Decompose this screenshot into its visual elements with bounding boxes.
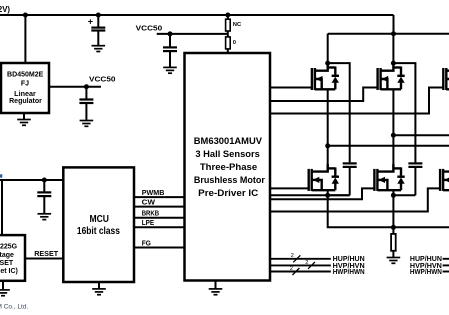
wire Q2 drain branch to bypass cap C6 (393, 63, 415, 162)
wire low-side U source to shunt rail (328, 195, 449, 227)
wire HVP/HVN stub to right edge (443, 264, 449, 266)
transistor Q2 high-side V nMOS (378, 63, 405, 90)
transistor Q6 low-side W nMOS (clipped) (440, 164, 449, 191)
node junction rail1/regulator (23, 13, 28, 18)
wire rail drop to second rail (393, 15, 395, 34)
svg-text:M Co., Ltd.: M Co., Ltd. (0, 303, 28, 310)
wire gate bus HUP/HUN (270, 258, 331, 260)
node low-side V source junction (391, 193, 396, 198)
wire RESET to MCU (25, 258, 63, 260)
svg-text:MCU: MCU (89, 214, 109, 225)
wire Q1 drain branch to bypass cap C5 (328, 63, 350, 162)
svg-text:Regulator: Regulator (9, 98, 42, 105)
linear regulator U2 BD450M2EFJ (1, 63, 49, 113)
voltage detector U3 BD5225G reset IC, clipped at left edge (0, 235, 25, 281)
svg-text:(Reset IC): (Reset IC) (0, 268, 18, 275)
wire phase U output to motor (328, 145, 449, 147)
ground under BM63001 (209, 289, 223, 295)
wire R_0 to BM63001 top pin (227, 49, 229, 53)
wire regulator ground lead (23, 113, 25, 119)
bus width slash mark (292, 268, 299, 275)
wire phase V output to motor (393, 134, 449, 136)
node Q2 drain junction (391, 61, 396, 66)
ground under reset IC (0, 290, 10, 296)
wire low-side U source/cap node to IC (270, 194, 350, 196)
node junction VCC50/cap (84, 84, 89, 89)
capacitor C6 bridge V bypass (408, 163, 422, 195)
node junction rail1/resistor R_NC (225, 13, 230, 18)
svg-text:Three-Phase: Three-Phase (200, 162, 257, 172)
wire phase U node (327, 89, 329, 171)
wire rail1 to resistor R_NC (227, 15, 229, 20)
node phase V junction (391, 133, 396, 138)
capacitor on VCC50 near IC (163, 34, 177, 67)
svg-text:FG: FG (142, 238, 151, 247)
transistor Q1 high-side U nMOS (312, 63, 339, 90)
ground under MCU (92, 289, 106, 295)
ground under MCU supply cap (38, 214, 52, 220)
wire rail1 drop to Q2 drain (392, 34, 394, 63)
svg-text:CW: CW (142, 198, 155, 207)
svg-text:(12V): (12V) (0, 5, 10, 14)
wire gate HW to Q3 (270, 88, 443, 114)
svg-text:HWP/HWN: HWP/HWN (410, 269, 442, 276)
wire C6 bottom to low-side V source node (393, 194, 415, 196)
ground under VCC50 IC cap (163, 67, 177, 73)
wire MCU signal PWMB (134, 196, 185, 198)
resistor R_0 0 ohm (226, 37, 236, 49)
wire MCU signal CW (134, 206, 185, 208)
wire HUP/HUN stub to right edge (443, 258, 449, 260)
node junction 5V/cap (42, 178, 47, 183)
wire gate HV to Q2 (270, 88, 378, 102)
svg-text:LPE: LPE (142, 218, 155, 227)
node junction rail1/bulk cap (96, 13, 101, 18)
capacitor C5 bridge U bypass (343, 163, 357, 195)
electrolytic bulk capacitor on 12V rail (91, 15, 105, 45)
node shunt junction (391, 225, 396, 230)
wire MCU ground lead (98, 282, 100, 288)
svg-text:Voltage: Voltage (0, 252, 14, 259)
ground under shunt resistor (387, 258, 401, 264)
pre-driver IC U1 BM63001AMUV (185, 53, 271, 281)
node junction rail1 drop onto rail2 (391, 31, 396, 36)
svg-text:VCC50: VCC50 (136, 24, 163, 33)
wire regulator VCC50 output (49, 86, 101, 88)
wire gate bus HVP/HVN (270, 264, 331, 266)
svg-text:PWMB: PWMB (142, 188, 165, 197)
ground under VCC50 cap (80, 121, 94, 127)
wire reset IC ground lead (2, 281, 4, 290)
blue net tick at left edge (0, 174, 2, 177)
wire gate LV to Q5 (270, 188, 374, 199)
svg-text:RESET: RESET (34, 249, 59, 258)
wire between R_NC and R_0 (227, 31, 229, 37)
svg-text:RESET: RESET (0, 260, 14, 267)
wire low-side V source to shunt rail (392, 195, 394, 227)
transistor Q5 low-side V nMOS (374, 164, 404, 191)
ground under regulator (17, 120, 31, 126)
svg-text:2: 2 (291, 253, 294, 259)
wire MCU signal BRKB (134, 217, 185, 219)
svg-text:+: + (88, 16, 93, 26)
wire rail2 to Q1 drain (327, 34, 329, 63)
wire 5V supply to MCU (0, 179, 63, 181)
wire gate HU to Q1 (270, 87, 312, 89)
svg-text:0: 0 (233, 40, 236, 46)
bus width slash mark (293, 255, 300, 262)
wire gate bus HWP/HWN (270, 271, 331, 273)
node junction VCC50/cap at IC (168, 31, 173, 36)
svg-text:2: 2 (305, 260, 308, 266)
wire second supply rail (328, 33, 449, 35)
wire MCU signal FG (134, 247, 185, 249)
wire C5 bottom to low-side U source node (328, 194, 350, 196)
node low-side U source junction (325, 193, 330, 198)
svg-text:FJ: FJ (21, 80, 29, 87)
capacitor on VCC50 at regulator (79, 87, 93, 120)
svg-text:VCC50: VCC50 (89, 75, 116, 84)
bus width slash mark (308, 262, 315, 269)
svg-text:3 Hall Sensors: 3 Hall Sensors (195, 149, 260, 159)
ground under bulk cap (92, 46, 106, 52)
resistor R_shunt current sense (391, 227, 396, 257)
wire VM 12V top rail (0, 14, 394, 16)
wire BM63001 ground lead (215, 281, 217, 289)
wire low-side V source drop (392, 190, 394, 195)
wire HWP/HWN stub to right edge (443, 271, 449, 273)
svg-text:Pre-Driver IC: Pre-Driver IC (198, 188, 258, 198)
svg-text:16bit class: 16bit class (77, 226, 120, 237)
wire gate LU to Q4 (270, 187, 309, 189)
svg-text:BD450M2E: BD450M2E (7, 72, 44, 79)
svg-text:HWP/HWN: HWP/HWN (333, 269, 365, 276)
svg-text:NC: NC (233, 22, 242, 28)
wire rail1 to regulator U2 input (24, 15, 26, 63)
svg-text:BRKB: BRKB (142, 209, 159, 218)
transistor Q3 high-side W nMOS (clipped) (443, 63, 449, 90)
wire phase V node (392, 89, 394, 171)
resistor R_NC (226, 19, 242, 31)
wire low-side U source drop (327, 190, 329, 195)
wire gate LW to Q6 (270, 188, 440, 211)
node phase U junction (325, 143, 330, 148)
wire MCU signal LPE (134, 226, 185, 228)
transistor Q4 low-side U nMOS (309, 164, 339, 191)
svg-text:BM63001AMUV: BM63001AMUV (194, 136, 263, 146)
capacitor on MCU supply (37, 180, 51, 213)
svg-text:2: 2 (290, 266, 293, 272)
wire VCC50 stub to resistor divider (157, 33, 228, 35)
node Q1 drain junction (325, 61, 330, 66)
svg-text:BD5225G: BD5225G (0, 244, 18, 251)
MCU block 16bit class (63, 167, 134, 282)
wire drop to reset IC (1, 180, 3, 235)
svg-text:Brushless Motor: Brushless Motor (194, 175, 265, 185)
